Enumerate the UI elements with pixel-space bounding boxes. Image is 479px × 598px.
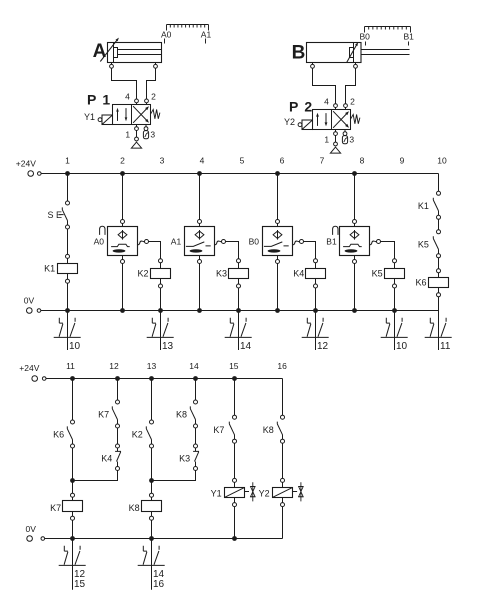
- svg-text:6: 6: [280, 155, 285, 165]
- svg-text:K5: K5: [372, 269, 383, 279]
- svg-text:4: 4: [200, 155, 205, 165]
- svg-text:7: 7: [320, 155, 325, 165]
- svg-text:13: 13: [147, 361, 157, 371]
- svg-text:14: 14: [240, 341, 252, 352]
- svg-text:B1: B1: [403, 31, 414, 41]
- svg-text:16: 16: [277, 361, 287, 371]
- svg-text:B: B: [292, 42, 306, 63]
- svg-text:4: 4: [324, 96, 329, 106]
- svg-text:3: 3: [349, 135, 354, 145]
- svg-text:K5: K5: [418, 240, 429, 250]
- svg-text:12: 12: [109, 361, 119, 371]
- svg-text:1: 1: [125, 130, 130, 140]
- svg-text:K7: K7: [50, 503, 61, 513]
- svg-text:P: P: [87, 91, 96, 107]
- svg-text:16: 16: [153, 579, 165, 590]
- svg-text:K3: K3: [179, 453, 190, 463]
- svg-text:14: 14: [189, 361, 199, 371]
- svg-text:0V: 0V: [24, 296, 35, 306]
- svg-text:A1: A1: [171, 236, 182, 246]
- svg-text:13: 13: [162, 341, 174, 352]
- svg-text:+24V: +24V: [16, 159, 36, 169]
- svg-text:K6: K6: [53, 430, 64, 440]
- svg-text:3: 3: [160, 155, 165, 165]
- svg-text:B1: B1: [326, 236, 337, 246]
- svg-text:K2: K2: [137, 269, 148, 279]
- svg-text:12: 12: [317, 341, 329, 352]
- svg-text:A1: A1: [201, 30, 212, 40]
- svg-text:+24V: +24V: [19, 363, 39, 373]
- svg-text:B0: B0: [359, 31, 370, 41]
- svg-text:K1: K1: [418, 201, 429, 211]
- svg-text:K7: K7: [98, 410, 109, 420]
- svg-text:0V: 0V: [26, 524, 37, 534]
- svg-text:A: A: [93, 41, 107, 62]
- svg-text:K3: K3: [216, 269, 227, 279]
- svg-text:K7: K7: [213, 425, 224, 435]
- svg-text:Y2: Y2: [284, 117, 295, 127]
- svg-text:11: 11: [440, 341, 451, 352]
- svg-text:K6: K6: [415, 278, 426, 288]
- svg-text:S E: S E: [48, 210, 63, 220]
- svg-text:5: 5: [240, 155, 245, 165]
- svg-text:Y1: Y1: [84, 112, 95, 122]
- svg-text:2: 2: [151, 91, 156, 101]
- svg-text:K4: K4: [101, 453, 112, 463]
- svg-text:1: 1: [65, 155, 70, 165]
- svg-text:K8: K8: [176, 410, 187, 420]
- svg-text:A0: A0: [94, 236, 105, 246]
- svg-text:K1: K1: [44, 264, 55, 274]
- svg-text:K8: K8: [263, 425, 274, 435]
- svg-text:K2: K2: [132, 430, 143, 440]
- svg-text:11: 11: [66, 361, 75, 371]
- svg-text:B0: B0: [249, 236, 260, 246]
- svg-text:15: 15: [229, 361, 239, 371]
- svg-text:K4: K4: [293, 269, 304, 279]
- svg-text:2: 2: [350, 96, 355, 106]
- svg-text:10: 10: [69, 341, 81, 352]
- svg-text:1: 1: [324, 135, 329, 145]
- svg-text:9: 9: [400, 155, 405, 165]
- svg-text:1: 1: [102, 91, 110, 107]
- svg-text:2: 2: [304, 99, 312, 115]
- svg-text:10: 10: [437, 155, 447, 165]
- svg-text:3: 3: [150, 130, 155, 140]
- svg-text:4: 4: [125, 91, 130, 101]
- svg-text:P: P: [289, 99, 298, 115]
- svg-text:K8: K8: [129, 503, 140, 513]
- svg-text:A0: A0: [161, 30, 172, 40]
- svg-text:Y2: Y2: [259, 489, 270, 499]
- svg-text:15: 15: [74, 579, 86, 590]
- svg-text:2: 2: [120, 155, 125, 165]
- svg-text:8: 8: [360, 155, 365, 165]
- svg-text:Y1: Y1: [211, 489, 222, 499]
- svg-text:10: 10: [396, 341, 408, 352]
